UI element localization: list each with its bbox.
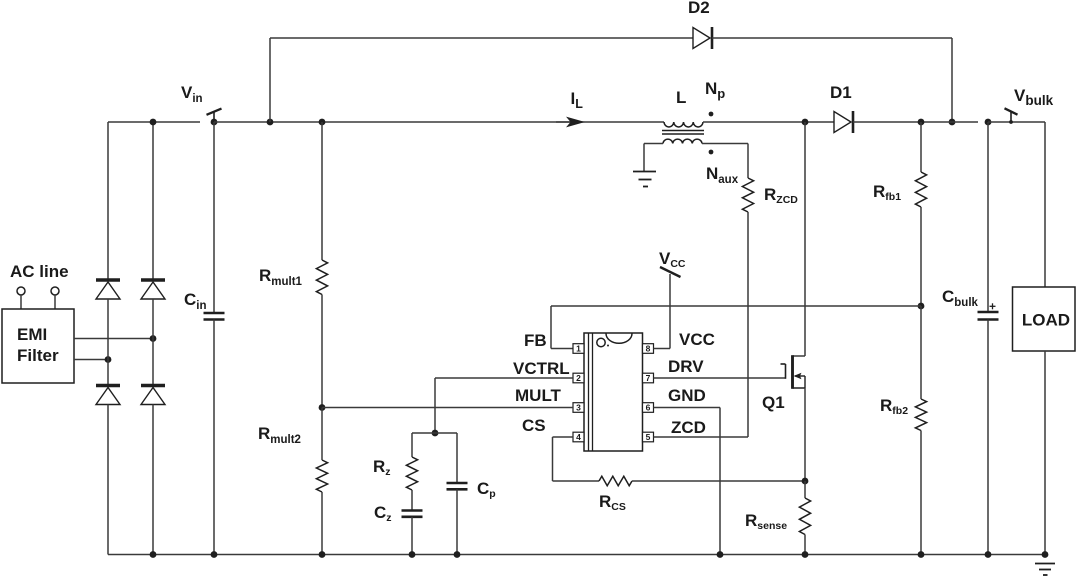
wire Q1 source [804, 388, 806, 481]
current arrow IL [556, 121, 570, 123]
wire EMI output top [74, 338, 153, 340]
AC line terminal 1 [17, 287, 25, 295]
wire rail to LOAD [1044, 122, 1046, 287]
wire bridge right column middle [152, 299, 154, 384]
wire Naux right [702, 143, 748, 145]
diode D2 [693, 28, 710, 49]
wire Rz upper [411, 433, 413, 457]
node bottom rail Rmult2 [319, 551, 326, 558]
wire main rail left [108, 121, 200, 123]
op-amp U1 body [584, 333, 643, 451]
svg-text:L: L [676, 88, 686, 107]
wire bottom rail [108, 554, 1045, 556]
node bottom rail bridge right [150, 551, 157, 558]
probe Vin [213, 111, 215, 122]
diode bridge top-left [96, 278, 120, 282]
node compensation junction [432, 430, 439, 437]
wire Cp upper [456, 433, 458, 483]
resistor Rfb1 [915, 172, 926, 207]
node Rmult1 top [319, 119, 326, 126]
svg-text:8: 8 [646, 344, 651, 354]
resistor Rsense [799, 498, 810, 535]
svg-text:ZCD: ZCD [671, 418, 706, 437]
wire bridge right column upper [152, 122, 154, 280]
ground output [1035, 563, 1055, 565]
svg-text:Q1: Q1 [762, 393, 785, 412]
node D2 return [949, 119, 956, 126]
wire Rfb2 lower [920, 431, 922, 555]
IC pin boxes with numbers [573, 344, 584, 354]
resistor RZCD [742, 178, 753, 212]
wire Rmult2 upper [321, 408, 323, 461]
wire D2 riser right [951, 38, 953, 122]
svg-text:VCC: VCC [679, 330, 715, 349]
node D2 branch left [267, 119, 274, 126]
wire FB net [551, 305, 921, 307]
inductor core bars [662, 130, 704, 132]
wire bridge right column lower [152, 405, 154, 555]
capacitor Cp [447, 482, 468, 485]
wire Naux left [644, 143, 663, 145]
node EMI bottom to bridge [105, 356, 112, 363]
node bridge right column top [150, 119, 157, 126]
svg-text:D2: D2 [688, 0, 710, 17]
svg-text:LOAD: LOAD [1022, 311, 1070, 330]
wire Rsense lower [804, 535, 806, 555]
svg-text:5: 5 [646, 432, 651, 442]
svg-text:1: 1 [576, 344, 581, 354]
svg-text:VCTRL: VCTRL [513, 359, 570, 378]
wire main rail 3 [703, 121, 834, 123]
svg-text:EMI: EMI [17, 325, 47, 344]
inductor L primary winding Np [664, 122, 703, 127]
node bottom rail Cz [409, 551, 416, 558]
svg-text:6: 6 [646, 403, 651, 413]
wire bridge left column lower [107, 405, 109, 555]
svg-text:D1: D1 [830, 83, 852, 102]
wire VCTRL net [435, 377, 573, 379]
node bottom rail Cin [211, 551, 218, 558]
node bottom rail output ground [1042, 551, 1049, 558]
capacitor Cin [204, 312, 225, 315]
winding Naux [663, 139, 702, 143]
svg-text:CS: CS [522, 416, 546, 435]
resistor RCS [599, 476, 632, 486]
wire Rsense upper [804, 481, 806, 498]
wire Cbulk lower [987, 320, 989, 555]
svg-text:GND: GND [668, 386, 706, 405]
capacitor Cbulk [978, 311, 999, 314]
wire Q1 drain [804, 122, 806, 356]
node bottom rail Rsense [802, 551, 809, 558]
svg-text:3: 3 [576, 403, 581, 413]
svg-text:7: 7 [646, 373, 651, 383]
node bottom rail Cp [454, 551, 461, 558]
node Cbulk branch [985, 119, 992, 126]
ground Naux [633, 171, 656, 173]
diode bridge top-right [141, 278, 165, 282]
wire bridge left column middle [107, 299, 109, 384]
wire Cin upper [213, 122, 215, 313]
wire RZCD to ZCD pin [747, 212, 749, 437]
probe Vcc [660, 267, 681, 277]
svg-text:Filter: Filter [17, 346, 59, 365]
LOAD box [1013, 287, 1076, 351]
wire GND net [654, 407, 721, 409]
wire compensation branch [412, 432, 457, 434]
wire Cz lower [411, 517, 413, 555]
wire Cp lower [456, 489, 458, 554]
polarity dot Np [709, 112, 714, 117]
wire D2 riser left [269, 38, 271, 122]
wire main rail 2 [214, 121, 664, 123]
wire Cbulk upper [987, 122, 989, 312]
resistor Rmult1 [316, 260, 327, 295]
wire bridge left column upper [107, 122, 109, 280]
resistor Rz [406, 457, 417, 490]
wire DRV net [654, 377, 786, 379]
node FB junction [918, 303, 925, 310]
wire VCC net [654, 348, 671, 350]
wire Rmult1 lower [321, 295, 323, 408]
wire Rfb1 upper [920, 122, 922, 172]
wire Cin lower [213, 320, 215, 555]
wire ZCD net [654, 436, 749, 438]
wire Rfb2 upper [920, 306, 922, 399]
wire CS net [553, 436, 574, 438]
transistor Q1 [791, 355, 794, 389]
wire Rmult2 lower [321, 492, 323, 555]
wire Rfb1 lower [920, 207, 922, 306]
svg-text:DRV: DRV [668, 357, 704, 376]
node Rsense top [802, 478, 809, 485]
probe Vbulk [1010, 112, 1012, 122]
wire D2 rail right [712, 37, 952, 39]
svg-text:2: 2 [576, 373, 581, 383]
wire Rmult1 upper [321, 122, 323, 260]
wire Rz to Cz [411, 490, 413, 511]
svg-text:4: 4 [576, 432, 581, 442]
wire RCS to Rsense [632, 480, 805, 482]
wire D2 rail left [270, 37, 693, 39]
svg-text:AC line: AC line [10, 262, 69, 281]
node Q1 drain branch [802, 119, 809, 126]
EMI filter box [2, 309, 74, 383]
capacitor Cz [402, 509, 423, 512]
diode bridge bottom-left [96, 384, 120, 388]
diode D1 [834, 112, 851, 133]
diode bridge bottom-right [141, 384, 165, 388]
node MULT junction [319, 404, 326, 411]
wire EMI output bottom [74, 359, 108, 361]
AC line terminal 2 [51, 287, 59, 295]
node bottom rail Cbulk [985, 551, 992, 558]
node Rfb1 top [918, 119, 925, 126]
wire main rail 5 [988, 121, 1045, 123]
wire main rail 4 [853, 121, 978, 123]
node EMI top to bridge [150, 335, 157, 342]
resistor Rmult2 [316, 460, 327, 492]
resistor Rfb2 [915, 399, 926, 431]
wire LOAD to ground rail [1044, 351, 1046, 555]
node Vin / Cin [211, 119, 218, 126]
svg-text:MULT: MULT [515, 386, 562, 405]
node bottom rail Rfb2 [918, 551, 925, 558]
node bottom rail GND [717, 551, 724, 558]
wire MULT net [322, 407, 573, 409]
svg-text:FB: FB [524, 331, 547, 350]
polarity dot Naux [709, 150, 714, 155]
